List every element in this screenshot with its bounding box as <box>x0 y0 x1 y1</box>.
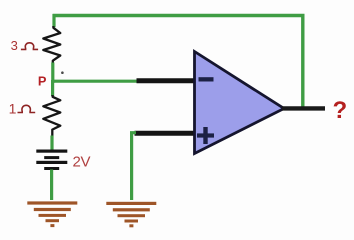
ground G1 bar 3 <box>39 214 67 217</box>
wire: feedback loop top horizontal segment <box>53 14 305 17</box>
svg-text:P: P <box>38 74 47 89</box>
battery V1 long plate 1 <box>36 150 67 153</box>
ground G1 bar 4 <box>46 219 60 222</box>
wire: black lead into op-amp non-inverting input <box>135 131 196 136</box>
ground G1 bar 2 <box>34 208 71 211</box>
battery V1 short plate 2 <box>44 167 59 170</box>
stray dot near node P <box>61 71 64 74</box>
wire: feedback loop left vertical stub into R1 top <box>52 14 55 27</box>
label R2 value omega symbol <box>18 105 36 112</box>
ground G2 bar 5 <box>129 224 133 227</box>
op-amp U1 triangle body <box>195 52 285 154</box>
svg-text:?: ? <box>333 97 348 124</box>
ground G2 bar 3 <box>118 214 146 217</box>
wire: feedback loop right vertical segment down to output <box>301 14 304 108</box>
wire: green vertical from non-inverting input down to ground G2 <box>132 133 136 200</box>
ground G2 bar 1 <box>106 202 156 205</box>
svg-text:3: 3 <box>11 38 18 53</box>
node P junction and horizontal wire toward op-amp inverting input <box>52 80 138 83</box>
label R1 value omega symbol <box>21 43 38 50</box>
wire: node P down to R2 top vertical green <box>51 80 54 96</box>
op-amp U1 non-inverting input plus symbol horizontal bar <box>197 133 214 137</box>
battery V1 short plate 1 <box>44 156 59 159</box>
wire: black lead into op-amp inverting input <box>137 78 196 83</box>
op-amp U1 inverting input minus symbol <box>199 77 214 81</box>
ground G2 bar 4 <box>125 220 139 223</box>
wire: R1 bottom to node P vertical green <box>51 63 54 84</box>
wire: battery negative terminal down to ground G1 <box>50 170 53 201</box>
resistor R1 zigzag body (3 ohm) <box>43 26 60 64</box>
ground G1 bar 1 <box>27 201 77 204</box>
resistor R2 zigzag body (1 ohm) <box>43 95 60 137</box>
ground G2 bar 2 <box>113 208 150 211</box>
op-amp U1 non-inverting input plus symbol vertical bar <box>203 127 207 144</box>
svg-text:1: 1 <box>9 100 17 116</box>
svg-text:2V: 2V <box>73 154 91 171</box>
wire: op-amp output lead <box>282 106 325 110</box>
ground G1 bar 5 <box>50 224 54 227</box>
wire: R2 bottom to battery positive terminal <box>50 136 53 151</box>
battery V1 long plate 2 <box>36 161 67 164</box>
